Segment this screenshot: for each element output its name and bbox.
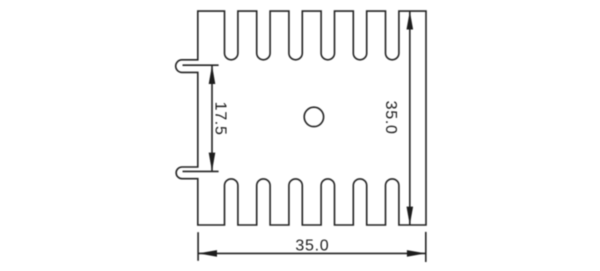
heatsink body outline bbox=[176, 11, 426, 225]
arrowhead down (17.5 dim, bottom) bbox=[209, 153, 216, 172]
svg-text:35.0: 35.0 bbox=[295, 238, 329, 255]
extension line bottom left (35.0 dim) bbox=[197, 232, 199, 261]
arrowhead down (35.0 right dim, bottom) bbox=[407, 207, 414, 225]
dimension line 35.0 bottom horizontal bbox=[198, 252, 426, 254]
dimension line 35.0 right vertical bbox=[409, 11, 411, 225]
extension line lower tab (17.5 dim) bbox=[183, 170, 219, 172]
extension line bottom right (35.0 dim) bbox=[425, 232, 427, 262]
arrowhead right (35.0 bottom dim) bbox=[407, 250, 426, 257]
arrowhead left (35.0 bottom dim) bbox=[198, 250, 217, 257]
svg-text:35.0: 35.0 bbox=[382, 101, 399, 135]
arrowhead up (17.5 dim, top) bbox=[209, 65, 216, 84]
extension line upper tab (17.5 dim) bbox=[183, 64, 219, 66]
dimension line 17.5 vertical bbox=[211, 65, 213, 171]
mounting hole bbox=[304, 107, 323, 126]
svg-text:17.5: 17.5 bbox=[212, 102, 229, 136]
arrowhead up (35.0 right dim, top) bbox=[407, 11, 414, 29]
